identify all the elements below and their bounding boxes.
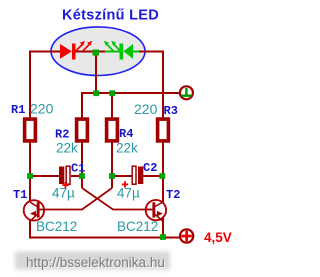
wire: ground bus with corner down to R2 top bbox=[82, 93, 180, 118]
LED D2 green: cathode bar and triangle bbox=[120, 44, 140, 60]
node: LED common cathode bbox=[93, 50, 100, 56]
capacitor C1 plates bbox=[59, 166, 70, 184]
wire: T1 collector node to C1 left plate bbox=[30, 175, 59, 177]
junction R4 / C2 / diagonal bbox=[109, 173, 115, 179]
wire: R4 bottom down to diagonal start bbox=[111, 142, 113, 188]
svg-text:22k: 22k bbox=[56, 141, 78, 156]
wire: red LED anode to left corner down to R1 top bbox=[30, 52, 60, 119]
wire: T2 emitter to bottom rail bbox=[162, 218, 164, 238]
red LED emission arrows bbox=[76, 41, 92, 51]
svg-text:R4: R4 bbox=[119, 127, 133, 141]
junction R2 / C1 / diagonal bbox=[79, 173, 85, 179]
transistor T2 (PNP BC212) bbox=[146, 200, 166, 221]
wire: R3 bottom to T2 collector bbox=[162, 142, 164, 203]
svg-text:47µ: 47µ bbox=[117, 186, 140, 201]
wire: R1 bottom to T1 collector bbox=[29, 142, 31, 201]
svg-text:22k: 22k bbox=[116, 141, 138, 156]
svg-text:4,5V: 4,5V bbox=[204, 230, 232, 245]
svg-text:220: 220 bbox=[134, 101, 158, 117]
svg-text:R3: R3 bbox=[164, 104, 178, 118]
wire: bus to R4 top bbox=[111, 93, 113, 118]
svg-text:R1: R1 bbox=[11, 103, 25, 117]
wire: center node to green lead bbox=[99, 51, 105, 53]
junction T2 emitter / bottom rail bbox=[160, 234, 166, 240]
node junction bus / R4 bbox=[109, 90, 115, 96]
watermark panel bbox=[15, 252, 170, 270]
transistor T1 (PNP BC212) bbox=[24, 200, 45, 221]
resistor R1 body bbox=[25, 119, 36, 141]
svg-text:220: 220 bbox=[30, 101, 54, 117]
svg-text:BC212: BC212 bbox=[36, 219, 77, 234]
svg-text:47µ: 47µ bbox=[52, 186, 75, 201]
plus mark C1 bbox=[62, 182, 68, 188]
svg-text:C2: C2 bbox=[143, 161, 157, 175]
svg-text:T1: T1 bbox=[13, 188, 27, 202]
svg-text:BC212: BC212 bbox=[117, 219, 158, 234]
LED enclosure ellipse bbox=[51, 27, 145, 76]
resistor R4 body bbox=[107, 119, 118, 141]
wire: C2 right plate to T2 collector node bbox=[143, 175, 163, 177]
svg-text:R2: R2 bbox=[55, 128, 69, 142]
green LED emission arrows bbox=[104, 41, 120, 51]
capacitor C2 plates bbox=[132, 166, 143, 184]
green LED lead from node bbox=[105, 51, 120, 53]
wire: red LED cathode bar to center node bbox=[76, 51, 94, 53]
junction T1 collector / C1 bbox=[27, 173, 33, 179]
wire: green LED anode right corner down to R3 top bbox=[139, 52, 164, 119]
resistor R3 body bbox=[158, 119, 169, 141]
wire: R4 node to C2 left plate bbox=[112, 175, 132, 177]
ground symbol bbox=[180, 86, 193, 99]
LED D1 red: triangle and cathode bar bbox=[60, 44, 76, 60]
svg-text:Kétszínű LED: Kétszínű LED bbox=[62, 8, 159, 24]
svg-text:http://bsselektronika.hu: http://bsselektronika.hu bbox=[26, 255, 165, 270]
junction C2 / T2 collector bbox=[159, 173, 165, 179]
wire: center node down to ground bus bbox=[95, 54, 97, 93]
wire: R2 bottom down to diagonal start bbox=[81, 142, 83, 188]
node junction on bus below LED bbox=[93, 90, 99, 96]
wire: C1 right plate to R2 node bbox=[71, 175, 82, 177]
resistor R2 body bbox=[77, 119, 88, 141]
wire: diagonal R2 node to T2 base bbox=[82, 188, 146, 210]
wire: diagonal R4 node to T1 base bbox=[45, 188, 112, 210]
svg-text:T2: T2 bbox=[166, 188, 180, 202]
plus mark C2 bbox=[122, 181, 128, 187]
battery plus terminal symbol bbox=[180, 229, 193, 242]
wire: T1 emitter down to bottom rail to battery bbox=[30, 220, 180, 238]
